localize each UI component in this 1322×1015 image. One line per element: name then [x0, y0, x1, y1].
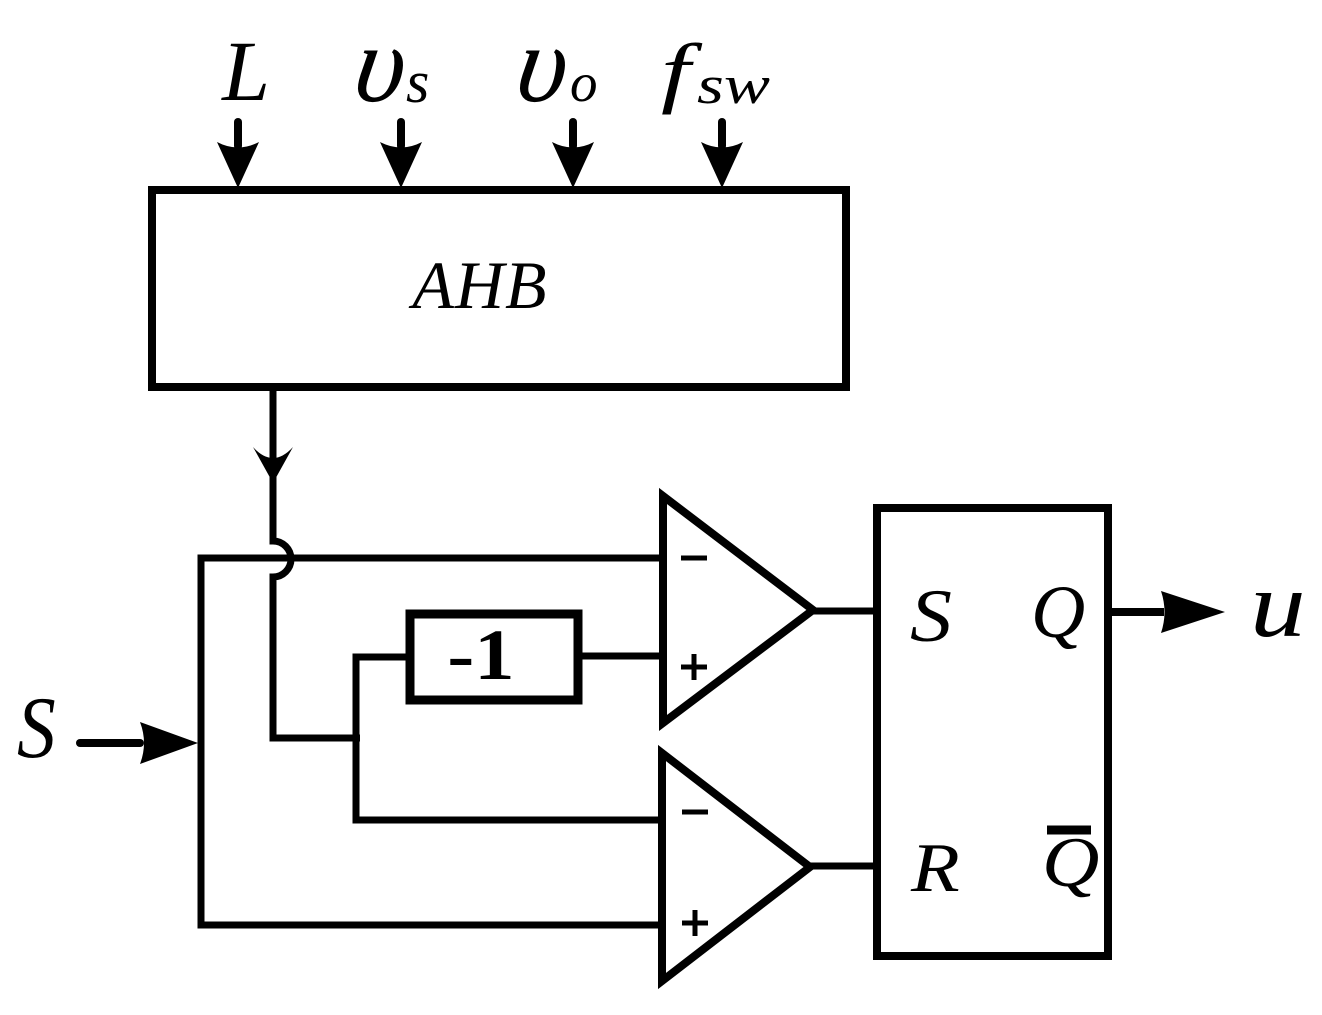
comparator U1 (top)	[663, 496, 813, 723]
wire branch to -1 block and comparator 2 minus	[356, 657, 665, 820]
arrow v_s into AHB	[380, 122, 422, 188]
svg-text:AHB: AHB	[408, 247, 547, 323]
minus sign comparator U1	[681, 556, 707, 561]
arrowhead on AHB output wire	[253, 447, 293, 483]
wire left rail: top wire to comparator 1 minus, down, bottom wire to comparator 2 plus	[201, 558, 666, 925]
arrow v_o into AHB	[552, 122, 594, 188]
wire -1 output to comparator 1 plus	[578, 653, 665, 660]
svg-text:o: o	[570, 52, 598, 113]
wire latch Q output	[1108, 608, 1164, 616]
svg-text:S: S	[910, 575, 952, 658]
arrow S input	[80, 722, 198, 764]
label v_o (input parameter)	[510, 2, 598, 124]
plus sign comparator U1	[681, 654, 707, 680]
overbar of Q-bar	[1047, 826, 1091, 835]
svg-text:sw: sw	[697, 56, 770, 115]
block AHB	[152, 190, 846, 387]
svg-text:-1: -1	[447, 615, 514, 695]
wire comparator U1 output to latch S	[810, 608, 874, 615]
svg-text:s: s	[406, 49, 429, 115]
arrowhead output u	[1161, 591, 1225, 633]
svg-text:R: R	[910, 829, 960, 906]
wire comparator U2 output to latch R	[807, 863, 874, 870]
svg-text:Q: Q	[1042, 824, 1099, 902]
svg-text:u: u	[1250, 554, 1306, 657]
svg-text:S: S	[17, 678, 56, 776]
block -1 (inverter gain)	[410, 614, 578, 700]
plus sign comparator U2	[682, 910, 708, 936]
comparator U2 (bottom)	[662, 753, 810, 981]
arrow f_sw into AHB	[701, 122, 743, 188]
svg-text:L: L	[220, 23, 270, 119]
block SR latch	[877, 508, 1108, 956]
minus sign comparator U2	[682, 810, 708, 815]
arrow L into AHB	[217, 122, 259, 188]
label v_s (input parameter)	[348, 2, 430, 124]
wire AHB output down with hop over top wire	[273, 387, 360, 738]
svg-text:Q: Q	[1031, 571, 1085, 654]
